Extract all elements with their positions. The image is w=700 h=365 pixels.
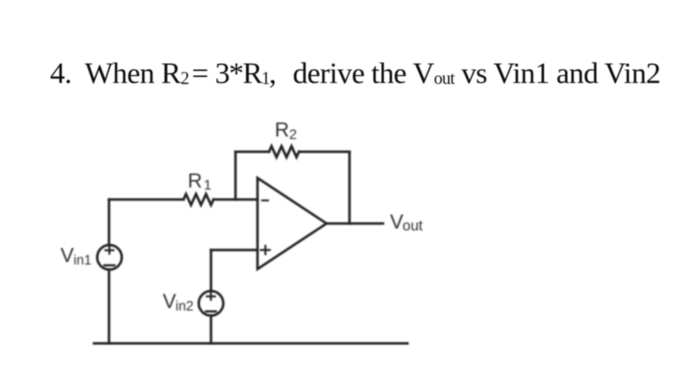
svg-text:in2: in2 <box>176 298 194 313</box>
resistor R1 <box>184 194 214 205</box>
svg-text:V: V <box>61 245 75 267</box>
wire: feedback right vertical down to output <box>348 152 351 224</box>
voltage source Vin1 <box>97 245 122 270</box>
label Vin2 <box>163 291 194 313</box>
op-amp U1 <box>258 178 327 269</box>
Vin1 polarity plus <box>105 247 113 254</box>
svg-text:2: 2 <box>289 126 297 142</box>
svg-text:in1: in1 <box>74 252 92 267</box>
label R2 <box>275 120 297 142</box>
ground rail <box>94 342 408 345</box>
svg-text:out: out <box>403 219 423 235</box>
wire: feedback top left segment <box>236 150 270 153</box>
resistor R2 <box>269 146 299 157</box>
wire: non-inverting input horizontal to op-amp plus <box>211 249 258 252</box>
label R1 <box>188 170 212 192</box>
svg-text:R: R <box>188 170 202 192</box>
Vin2 polarity minus <box>206 310 216 312</box>
voltage source Vin2 <box>199 291 224 316</box>
svg-text:R: R <box>275 120 289 142</box>
label Vout <box>390 211 423 234</box>
wire: Vin2 top vertical segment <box>210 250 213 291</box>
wire: inverting input net (Vin1 node to op-amp minus, through R1) <box>109 198 258 201</box>
wire: feedback top right segment <box>299 150 350 153</box>
svg-text:1: 1 <box>204 177 212 193</box>
Vin2 polarity plus <box>207 293 215 300</box>
Vin1 polarity minus <box>104 264 114 266</box>
wire: Vin1 top vertical segment <box>108 200 111 246</box>
title: problem statement <box>50 59 660 89</box>
label Vin1 <box>61 245 92 267</box>
wire: Vin2 bottom vertical to ground rail <box>210 316 213 344</box>
wire: Vin1 bottom vertical to ground rail <box>108 270 111 344</box>
op-amp plus input marker <box>261 246 270 254</box>
wire: feedback left vertical (from inverting node up) <box>234 152 237 200</box>
op-amp minus input marker <box>262 199 268 201</box>
wire: output from op-amp apex to Vout stub <box>327 222 384 225</box>
